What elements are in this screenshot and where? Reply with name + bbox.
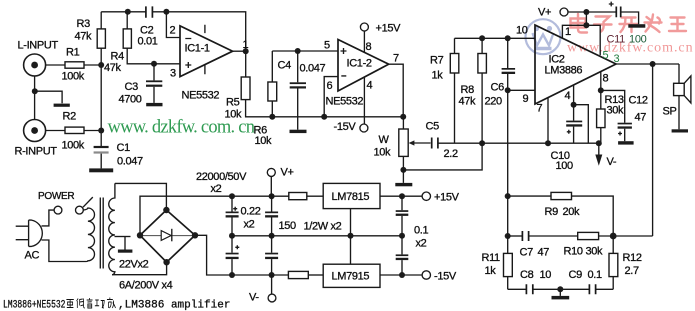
ground C12 xyxy=(618,141,634,144)
capacitor C5 xyxy=(432,138,455,149)
svg-text:5: 5 xyxy=(603,50,609,62)
ground input xyxy=(54,104,70,107)
svg-text:C6: C6 xyxy=(491,82,505,94)
resistor R8 xyxy=(478,38,487,143)
wire R1 to node L xyxy=(84,64,101,66)
svg-text:R2: R2 xyxy=(63,111,77,123)
node 0.22 top junction xyxy=(269,193,275,199)
watermark red chinese fa xyxy=(645,15,662,33)
capacitor C1 xyxy=(94,146,109,169)
svg-text:R4: R4 xyxy=(111,51,125,63)
svg-text:IC1-2: IC1-2 xyxy=(347,58,372,70)
node feedback ground junction xyxy=(557,286,563,292)
terminal -15V xyxy=(422,271,430,279)
svg-text:C11: C11 xyxy=(607,34,626,46)
wire pin5 xyxy=(586,25,600,55)
capacitor 0.1 lower xyxy=(396,236,409,275)
svg-text:R5: R5 xyxy=(226,97,240,109)
resistor R10 xyxy=(578,232,653,239)
svg-text:R3: R3 xyxy=(77,18,91,30)
terminal V- PSU xyxy=(268,275,276,302)
svg-text:0.22: 0.22 xyxy=(241,206,261,218)
resistor R4 xyxy=(123,12,154,64)
wire R2 to node R xyxy=(84,130,101,132)
capacitor C7 xyxy=(508,231,578,241)
terminal +15V op-amp xyxy=(360,23,368,52)
svg-text:L-INPUT: L-INPUT xyxy=(18,40,59,52)
ground feedback xyxy=(552,289,570,299)
node jack ground junction xyxy=(32,88,38,94)
svg-text:5: 5 xyxy=(324,40,330,52)
svg-text:47: 47 xyxy=(635,112,647,124)
wire pin9 xyxy=(508,89,535,91)
capacitor 0.1 upper xyxy=(396,196,409,236)
connector L-INPUT jack xyxy=(24,54,46,76)
wire pin8 xyxy=(600,72,602,91)
capacitor 22000 upper xyxy=(226,196,239,236)
capacitor C4 xyxy=(290,51,306,130)
power V- arrow xyxy=(595,143,602,166)
node 22000 mid junction xyxy=(229,233,235,239)
svg-text:1k: 1k xyxy=(432,70,444,82)
svg-text:C3: C3 xyxy=(125,81,139,93)
regulator LM7815 xyxy=(323,183,380,208)
capacitor 0.22 lower xyxy=(265,236,278,275)
ground C3 xyxy=(146,103,162,106)
caption chinese zhong xyxy=(66,298,115,309)
svg-text:2.2: 2.2 xyxy=(444,148,458,160)
wire feedback bottom xyxy=(508,288,614,290)
svg-text:0.047: 0.047 xyxy=(117,156,143,168)
resistor R7 xyxy=(450,38,459,143)
node bridge top xyxy=(163,207,169,213)
AC plug xyxy=(16,220,43,246)
wire mid ground rail xyxy=(232,235,402,237)
svg-text:47k: 47k xyxy=(75,31,93,43)
resistor 150 upper xyxy=(289,193,307,200)
svg-text:0.1: 0.1 xyxy=(588,269,602,281)
terminal -15V op-amp xyxy=(360,124,368,132)
svg-text:47k: 47k xyxy=(104,62,122,74)
wire center tap xyxy=(115,236,131,238)
svg-text:20k: 20k xyxy=(563,206,581,218)
node R6 bottom junction xyxy=(269,114,275,120)
wire main trunk x=101 xyxy=(100,48,102,146)
switch POWER xyxy=(54,197,93,214)
node +15V junction xyxy=(399,193,405,199)
capacitor C3 xyxy=(146,64,162,103)
svg-text:LM7915: LM7915 xyxy=(332,271,370,283)
wire jack trunk vertical xyxy=(34,76,36,120)
svg-text:3: 3 xyxy=(170,68,176,80)
ground C4 xyxy=(290,130,307,133)
svg-text:10: 10 xyxy=(516,25,528,37)
svg-text:LM3886+NE5532: LM3886+NE5532 xyxy=(3,300,66,311)
svg-text:100k: 100k xyxy=(62,71,85,83)
svg-text:10k: 10k xyxy=(255,135,273,147)
capacitor C12 xyxy=(601,90,632,141)
transformer primary xyxy=(83,208,94,262)
transformer secondary xyxy=(109,183,115,274)
caption chinese fang xyxy=(107,298,116,309)
resistor R2 xyxy=(65,127,84,133)
svg-text:R8: R8 xyxy=(461,84,475,96)
svg-text:R12: R12 xyxy=(623,252,642,264)
resistor R6 xyxy=(268,51,277,117)
node 0.22 mid junction xyxy=(269,233,275,239)
resistor R13 xyxy=(597,90,605,143)
node output IC1-1 xyxy=(243,48,249,54)
node C4 junction xyxy=(295,48,301,54)
node bridge bottom xyxy=(163,259,169,265)
svg-text:R1: R1 xyxy=(66,47,80,59)
svg-text:1: 1 xyxy=(565,26,571,38)
wire ground stub xyxy=(35,91,62,103)
wire output apex to node xyxy=(233,50,246,52)
wire y51 to pin5 xyxy=(272,50,338,52)
svg-text:0.047: 0.047 xyxy=(300,63,326,75)
node 0.1 mid junction xyxy=(399,233,405,239)
node C2 right junction xyxy=(163,9,169,15)
svg-text:2: 2 xyxy=(170,25,176,37)
node pin3 junction xyxy=(151,61,157,67)
wire R jack to R2 xyxy=(45,130,65,132)
wire signal y116.8 xyxy=(272,116,403,118)
transformer core xyxy=(100,198,103,269)
potentiometer W xyxy=(399,117,431,170)
svg-text:2.7: 2.7 xyxy=(625,265,639,277)
wire pin4 jog to rail xyxy=(574,105,589,144)
node pot top junction xyxy=(400,114,406,120)
svg-text:R9: R9 xyxy=(545,206,559,218)
svg-text:0.1: 0.1 xyxy=(414,225,428,237)
svg-text:9: 9 xyxy=(523,93,529,105)
watermark red chinese kai xyxy=(620,18,638,33)
capacitor C8 xyxy=(526,284,532,294)
resistor R1 xyxy=(65,62,84,68)
svg-text:10k: 10k xyxy=(374,147,392,159)
wire V- rail y143 xyxy=(455,142,599,144)
svg-text:30k: 30k xyxy=(586,246,604,258)
svg-text:x2: x2 xyxy=(211,183,222,195)
wire 150 to LM7915 xyxy=(308,274,323,276)
wire C6 node down to feedback xyxy=(507,90,509,196)
svg-text:-15V: -15V xyxy=(334,121,357,133)
svg-text:8: 8 xyxy=(366,41,372,53)
op-amp IC1-1 xyxy=(180,25,233,77)
wire pin6 xyxy=(324,77,338,117)
ground pot xyxy=(395,170,412,186)
svg-text:10: 10 xyxy=(540,269,552,281)
svg-text:LM7815: LM7815 xyxy=(332,191,370,203)
terminal V+ PSU xyxy=(267,168,275,196)
node R13 bottom junction xyxy=(596,140,602,146)
wire V+ down xyxy=(585,12,587,25)
svg-text:R7: R7 xyxy=(430,55,444,67)
svg-text:6A/200V x4: 6A/200V x4 xyxy=(119,280,173,292)
svg-text:V+: V+ xyxy=(538,7,551,19)
ground C1 xyxy=(89,168,113,172)
node bridge left xyxy=(137,232,143,238)
wire pin1 xyxy=(562,25,586,38)
svg-text:C5: C5 xyxy=(426,121,440,133)
node regulator mid junction xyxy=(348,233,354,239)
watermark blue logo xyxy=(526,19,561,54)
svg-text:4: 4 xyxy=(565,90,571,102)
wire secondary bottom to bridge xyxy=(112,262,167,275)
svg-text:1k: 1k xyxy=(485,265,497,277)
resistor R3 xyxy=(97,12,105,48)
ground C11 xyxy=(628,24,645,28)
connector R-INPUT jack xyxy=(24,120,46,142)
svg-text:4700: 4700 xyxy=(119,94,142,106)
capacitor 22000 lower xyxy=(226,236,240,275)
svg-text:-15V: -15V xyxy=(434,271,457,283)
svg-text:47k: 47k xyxy=(459,96,477,108)
svg-text:C1: C1 xyxy=(117,142,131,154)
svg-text:R10: R10 xyxy=(564,246,583,258)
wire bridge right to V- rail xyxy=(195,235,288,275)
op-amp IC1-2 xyxy=(338,40,389,92)
svg-text:IC1-1: IC1-1 xyxy=(185,43,210,55)
node pin1/5 junction xyxy=(583,22,589,28)
svg-text:POWER: POWER xyxy=(38,191,74,202)
caption chinese yin xyxy=(87,298,93,308)
node R4 top junction xyxy=(125,9,131,15)
node V+ junction top xyxy=(583,9,589,15)
node pin6 junction xyxy=(321,114,327,120)
resistor 150 lower xyxy=(288,271,308,278)
node -15V junction xyxy=(399,272,405,278)
svg-text:C4: C4 xyxy=(278,60,292,72)
ground SP xyxy=(672,129,688,132)
capacitor C2 xyxy=(146,6,153,17)
wire output feedback drop xyxy=(652,64,654,236)
svg-text:150: 150 xyxy=(279,220,297,232)
wire secondary top to bridge xyxy=(115,183,166,210)
wire pin7 xyxy=(547,98,549,144)
wire pot bottom to rail riser xyxy=(403,143,482,170)
capacitor C9 xyxy=(589,284,595,294)
node 22000 top junction xyxy=(229,193,235,199)
node pin4 junction xyxy=(571,102,577,108)
svg-text:SP: SP xyxy=(663,106,677,118)
resistor R9 xyxy=(508,192,614,236)
svg-text:22Vx2: 22Vx2 xyxy=(119,259,149,271)
resistor R11 xyxy=(504,236,513,289)
wire bridge left to V+ rail xyxy=(140,196,289,235)
node feedback B junction xyxy=(610,233,617,240)
caption chinese di xyxy=(77,299,85,309)
resistor R12 xyxy=(609,236,618,289)
svg-text:W: W xyxy=(379,134,390,146)
node pin8 junction xyxy=(598,87,604,93)
terminal +15V xyxy=(422,192,430,200)
wire LM7915 out xyxy=(380,274,422,276)
regulator LM7915 xyxy=(323,264,380,287)
node V- bottom junction xyxy=(269,272,275,278)
svg-text:,LM3886 amplifier: ,LM3886 amplifier xyxy=(118,300,231,311)
svg-text:V-: V- xyxy=(249,292,259,304)
svg-text:22000/50V: 22000/50V xyxy=(196,171,247,183)
wire to speaker xyxy=(678,64,680,83)
svg-text:100: 100 xyxy=(556,160,574,172)
wire LM3886 output xyxy=(616,63,679,65)
svg-text:6: 6 xyxy=(327,80,333,92)
svg-text:30k: 30k xyxy=(607,105,625,117)
wire LM7815 out xyxy=(380,195,422,197)
rectifier bridge xyxy=(140,210,195,262)
svg-text:47: 47 xyxy=(538,247,550,259)
node pin7 junction xyxy=(545,140,551,146)
node C6 top junction xyxy=(505,35,511,41)
svg-text:NE5532: NE5532 xyxy=(182,90,220,102)
wire pin4 to -15V xyxy=(363,77,365,124)
node bridge right xyxy=(192,232,198,238)
svg-text:10k: 10k xyxy=(225,109,243,121)
svg-text:+15V: +15V xyxy=(376,23,402,35)
watermark red chinese dian xyxy=(571,14,687,33)
capacitor C10 xyxy=(566,105,582,144)
svg-text:1/2W x2: 1/2W x2 xyxy=(304,221,342,233)
node R8 top junction xyxy=(479,35,485,41)
svg-text:R11: R11 xyxy=(482,252,501,264)
node feedback C junction xyxy=(505,233,511,239)
svg-text:100: 100 xyxy=(629,34,647,46)
node 22000 bottom junction xyxy=(229,272,235,278)
capacitor 0.22 upper xyxy=(265,196,278,236)
op-amp IC2 LM3886 xyxy=(535,25,616,104)
wire V+ to C11 xyxy=(568,11,616,13)
svg-text:8: 8 xyxy=(603,73,609,85)
wire node to pin3 xyxy=(154,63,180,65)
svg-text:C8: C8 xyxy=(520,269,534,281)
wire L jack to R1 xyxy=(45,64,65,66)
svg-text:x2: x2 xyxy=(416,238,427,250)
wire 150 to LM7815 xyxy=(307,195,323,197)
wire pin4 xyxy=(573,85,575,105)
wire pin2 input xyxy=(166,12,180,38)
wire plug to switch xyxy=(42,210,55,226)
svg-text:C9: C9 xyxy=(569,269,583,281)
wire A to C junction xyxy=(507,196,509,236)
svg-text:0.01: 0.01 xyxy=(138,36,158,48)
node pin9 junction xyxy=(505,87,511,93)
resistor R5 xyxy=(241,51,272,117)
svg-text:+15V: +15V xyxy=(434,192,460,204)
svg-text:R-INPUT: R-INPUT xyxy=(15,146,58,158)
ground center tap xyxy=(118,237,132,253)
svg-text:C7: C7 xyxy=(520,247,534,259)
svg-text:3: 3 xyxy=(614,53,620,65)
svg-text:AC: AC xyxy=(25,250,40,262)
node R1 junction xyxy=(98,62,104,68)
svg-text:V-: V- xyxy=(607,156,617,168)
svg-text:V+: V+ xyxy=(281,167,294,179)
wire IC1-2 output xyxy=(389,64,404,117)
capacitor C6 xyxy=(502,38,515,90)
wire top feedback xyxy=(101,12,246,51)
node pot bottom junction xyxy=(400,167,406,173)
wire regulator ground xyxy=(350,209,352,265)
svg-text:100k: 100k xyxy=(62,140,85,152)
svg-text:LM3886: LM3886 xyxy=(545,65,583,77)
svg-text:7: 7 xyxy=(537,103,543,115)
watermark red chinese zi xyxy=(594,17,612,32)
svg-text:NE5532: NE5532 xyxy=(326,96,364,108)
svg-text:7: 7 xyxy=(393,53,399,65)
svg-text:220: 220 xyxy=(485,96,503,108)
node feedback A junction xyxy=(505,193,511,199)
svg-text:x2: x2 xyxy=(244,219,255,231)
svg-text:C12: C12 xyxy=(629,95,648,107)
node R2 junction xyxy=(98,128,104,134)
watermark red chinese wang xyxy=(669,18,686,32)
wire plug to primary bottom xyxy=(42,240,87,262)
wire pin10 node xyxy=(455,37,536,39)
terminal V+ LM3886 xyxy=(560,8,568,16)
caption chinese gong xyxy=(95,300,104,308)
node output junction xyxy=(650,61,656,67)
node R8 bottom junction xyxy=(479,140,485,146)
svg-text:4: 4 xyxy=(367,80,373,92)
capacitor C11 xyxy=(609,2,639,25)
speaker SP xyxy=(674,76,691,129)
